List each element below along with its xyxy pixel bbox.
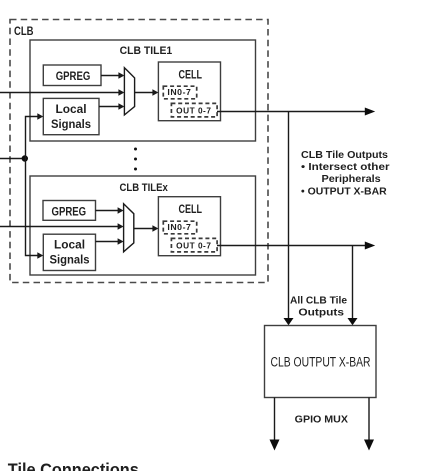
CLB outer dashed box (10, 20, 268, 283)
svg-text:CLB Tile Outputs: CLB Tile Outputs (301, 150, 388, 161)
svg-text:CELL: CELL (179, 204, 203, 216)
svg-text:Outputs: Outputs (298, 307, 344, 318)
CLB TILE1 box (30, 40, 256, 141)
CLB TILEx box (30, 176, 256, 275)
svg-text:OUT 0-7: OUT 0-7 (176, 241, 211, 250)
svg-text:All CLB Tile: All CLB Tile (290, 296, 347, 307)
wire vertical branch B to X-BAR (352, 246, 354, 320)
OUT 0-7 dashed box (tilex) (171, 238, 217, 252)
svg-text:GPIO MUX: GPIO MUX (295, 415, 349, 426)
wire external input 2 (0, 226, 119, 228)
svg-text:Local: Local (54, 240, 85, 252)
wire left vertical bus (26, 117, 38, 256)
svg-text:GPREG: GPREG (52, 206, 87, 218)
wire vertical branch A to X-BAR (288, 112, 290, 320)
mux M1 (tile1) (124, 68, 134, 115)
wire arrow into Local Signals tile1 (37, 113, 43, 119)
svg-text:OUT 0-7: OUT 0-7 (176, 106, 211, 115)
wire tile1 output (217, 111, 366, 113)
node junction dot (22, 155, 28, 161)
CELL box (tile1) (158, 62, 220, 121)
Local Signals box (tilex) (43, 234, 95, 270)
svg-text:Signals: Signals (51, 119, 91, 131)
wire GPREGx to mux (96, 210, 119, 212)
Local Signals box (tile1) (43, 98, 99, 134)
GPREG box (tile1) (43, 65, 101, 86)
IN0-7 dashed box (tilex) (163, 221, 196, 234)
svg-text:CLB TILE1: CLB TILE1 (120, 45, 173, 57)
wire GPIO output right (368, 398, 370, 441)
CLB OUTPUT X-BAR box (265, 326, 377, 398)
svg-text:IN0-7: IN0-7 (167, 223, 191, 232)
svg-text:• Intersect other: • Intersect other (301, 162, 390, 173)
wire GPREG1 to mux (101, 75, 119, 77)
wire Local Signals x to mux (96, 241, 119, 243)
svg-text:Tile Connections: Tile Connections (8, 460, 139, 471)
wire external input 1 (0, 92, 119, 94)
svg-text:CELL: CELL (179, 69, 203, 81)
OUT 0-7 dashed box (tile1) (171, 103, 217, 117)
vertical dots between tiles (134, 148, 137, 151)
mux M2 (tilex) (124, 204, 134, 252)
svg-text:IN0-7: IN0-7 (167, 88, 191, 97)
GPREG box (tilex) (43, 201, 96, 221)
svg-text:CLB TILEx: CLB TILEx (120, 182, 169, 194)
svg-text:Local: Local (56, 104, 87, 116)
wire arrow into Local Signals tilex (37, 252, 43, 258)
CELL box (tilex) (158, 197, 220, 256)
svg-text:GPREG: GPREG (56, 71, 91, 83)
wire left stub into junction (0, 158, 25, 160)
wire mux2 out to CELL (134, 228, 154, 230)
svg-text:Peripherals: Peripherals (322, 174, 382, 185)
svg-text:• OUTPUT X-BAR: • OUTPUT X-BAR (301, 186, 388, 197)
wire Local Signals 1 to mux (99, 106, 119, 108)
wire mux1 out to CELL (135, 92, 154, 94)
svg-text:CLB OUTPUT X-BAR: CLB OUTPUT X-BAR (271, 355, 371, 370)
wire GPIO output left (274, 398, 276, 441)
IN0-7 dashed box (tile1) (163, 86, 196, 99)
svg-text:Signals: Signals (50, 255, 90, 267)
svg-text:CLB: CLB (14, 24, 34, 38)
wire tilex output (217, 245, 366, 247)
